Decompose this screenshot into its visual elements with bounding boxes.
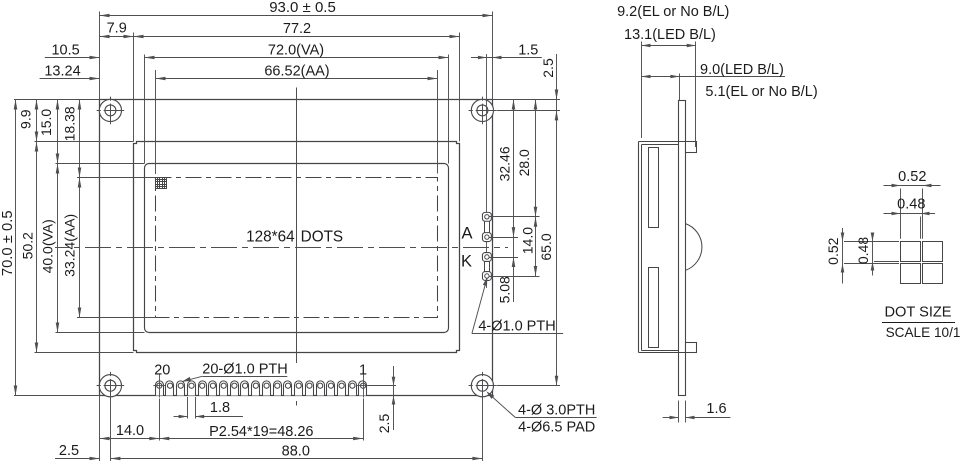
dimension chain 28.0 / 14.0 bbox=[516, 100, 537, 277]
svg-text:18.38: 18.38 bbox=[61, 106, 77, 141]
dimension 1.5 pin column offset bbox=[471, 42, 542, 59]
label DOT SIZE bbox=[882, 304, 955, 322]
dot detail extension lines (left) bbox=[844, 242, 899, 264]
dimension 18.38 AA top offset bbox=[61, 100, 81, 178]
dimension 33.24(AA) height bbox=[62, 178, 82, 318]
leader pin A lower bbox=[489, 237, 518, 239]
side view: LCD glass edge lower bbox=[649, 268, 659, 348]
svg-text:0.48: 0.48 bbox=[897, 197, 925, 213]
side view: bottom mounting tab bbox=[686, 343, 697, 353]
mounting hole top-right (Ø3.0 PTH / Ø6.5 PAD) bbox=[469, 97, 497, 125]
dimension chain 2.5 / 65.0 bbox=[538, 54, 558, 386]
svg-text:88.0: 88.0 bbox=[282, 444, 310, 460]
leader bezel bottom (left) bbox=[35, 352, 134, 354]
side view: top mounting tab bbox=[686, 142, 697, 153]
dimension 9.9 bezel top offset bbox=[18, 100, 39, 142]
dimension 0.52 dot pitch (left) bbox=[825, 228, 844, 284]
leader from bottom-right hole center bbox=[497, 385, 561, 387]
svg-text:0.48: 0.48 bbox=[855, 237, 871, 264]
pin 20 crosshair bbox=[153, 375, 165, 398]
svg-text:40.0(VA): 40.0(VA) bbox=[39, 219, 55, 273]
svg-text:77.2: 77.2 bbox=[283, 21, 311, 37]
dimension chain 32.46 / 5.08 bbox=[497, 100, 516, 304]
leader 4-Ø3.0 PTH / 4-Ø6.5 PAD to mounting hole bbox=[486, 391, 596, 435]
leader from top-right hole center bbox=[497, 110, 561, 112]
dimension 70.0 +/- 0.5 overall height bbox=[0, 100, 17, 396]
display glass outline (72.0 x 40.0 VA) bbox=[145, 164, 449, 333]
dot detail extension lines (top) bbox=[901, 189, 923, 239]
metal bezel frame (77.2 x 50.2) with stepped corners bbox=[134, 142, 460, 353]
label pin 1 bbox=[359, 363, 367, 379]
side view: LCD glass edge upper bbox=[649, 148, 659, 228]
label 128*64 DOTS bbox=[246, 229, 343, 246]
dimension 1.8 pad width bbox=[174, 400, 243, 418]
backlight pads A (anode pins) bbox=[482, 212, 491, 241]
dimension 88.0 hole spacing bbox=[110, 444, 482, 461]
label K bbox=[461, 253, 472, 271]
dimension 14.0 pin20 offset bbox=[100, 423, 160, 440]
extension line bezel left edge bbox=[133, 33, 135, 142]
vertical centerline of display bbox=[296, 88, 298, 406]
svg-text:7.9: 7.9 bbox=[107, 21, 127, 37]
dimension 13.24 (outside arrows) bbox=[40, 64, 100, 81]
leader VA top (left) bbox=[56, 163, 145, 165]
side view: bezel bottom flange bbox=[639, 351, 686, 353]
backlight pads K (cathode pins) bbox=[482, 253, 491, 281]
side view: PCB edge bbox=[679, 101, 686, 396]
dimension 2.5 pin row offset bbox=[376, 366, 395, 433]
svg-text:93.0 ± 0.5: 93.0 ± 0.5 bbox=[269, 0, 336, 16]
svg-text:20-Ø1.0 PTH: 20-Ø1.0 PTH bbox=[202, 362, 287, 378]
dimension 0.48 dot height (left) bbox=[855, 233, 874, 276]
leader AA bottom (left) bbox=[77, 317, 156, 319]
dimension 72.0(VA) bbox=[145, 42, 449, 59]
extension line left hole center (down) bbox=[110, 400, 112, 462]
svg-text:1.8: 1.8 bbox=[210, 400, 230, 416]
leader pin A upper bbox=[489, 216, 539, 218]
extension line PCB top-left corner bbox=[99, 12, 101, 100]
leader pin 1 row (right) bbox=[368, 385, 396, 387]
side view extension line bezel front bbox=[641, 42, 643, 139]
svg-text:K: K bbox=[461, 253, 472, 271]
extension line PCB bottom edge (left) bbox=[14, 395, 100, 397]
pin 1 crosshair bbox=[357, 375, 369, 398]
svg-text:0.52: 0.52 bbox=[898, 169, 926, 185]
svg-text:1: 1 bbox=[359, 363, 367, 379]
svg-text:2.5: 2.5 bbox=[59, 443, 79, 459]
connector pins 1-20 (20-Ø1.0 PTH pads) bbox=[156, 381, 367, 396]
svg-text:15.0: 15.0 bbox=[38, 109, 54, 136]
dot size detail: 2x2 dot squares bbox=[901, 242, 943, 284]
svg-text:5.1(EL or No B/L): 5.1(EL or No B/L) bbox=[705, 84, 817, 100]
dimension 15.0 VA top offset bbox=[38, 100, 59, 164]
dimension P2.54*19=48.26 bbox=[159, 424, 363, 440]
svg-text:72.0(VA): 72.0(VA) bbox=[268, 42, 324, 58]
extension line AA left bbox=[155, 70, 157, 174]
dimension 0.52 dot pitch (top) bbox=[884, 169, 941, 187]
side view extension line PCB front bbox=[679, 74, 681, 101]
svg-text:9.2(EL or No B/L): 9.2(EL or No B/L) bbox=[617, 4, 729, 20]
mounting hole bottom-right (Ø3.0 PTH / Ø6.5 PAD) bbox=[469, 372, 497, 400]
extension of PCB top edge to the right bbox=[493, 99, 561, 101]
dimension 7.9 bezel offset bbox=[100, 21, 134, 39]
dimension 50.2 bezel height bbox=[20, 142, 39, 353]
extension line VA left bbox=[144, 55, 146, 164]
svg-text:32.46: 32.46 bbox=[497, 146, 513, 181]
svg-text:33.24(AA): 33.24(AA) bbox=[62, 214, 78, 277]
dimension 77.2 bezel width bbox=[134, 21, 460, 38]
leader VA bottom (left) bbox=[56, 332, 145, 334]
svg-text:10.5: 10.5 bbox=[51, 42, 79, 58]
leader 4-Ø1.0 PTH to backlight pad bbox=[472, 277, 563, 335]
svg-text:14.0: 14.0 bbox=[519, 227, 535, 254]
leader 20-Ø1.0 PTH to pin 18 bbox=[182, 362, 288, 382]
label A bbox=[461, 224, 472, 242]
extension lines PCB thickness bbox=[679, 401, 686, 423]
svg-text:2.5: 2.5 bbox=[540, 58, 556, 78]
svg-text:4-Ø1.0 PTH: 4-Ø1.0 PTH bbox=[478, 319, 555, 335]
svg-text:128*64: 128*64 bbox=[246, 229, 295, 246]
active area AA dash-dot border (66.52 x 33.24) bbox=[156, 178, 438, 318]
svg-text:13.24: 13.24 bbox=[44, 64, 80, 80]
dimension 40.0(VA) height bbox=[39, 164, 59, 333]
svg-text:DOT SIZE: DOT SIZE bbox=[885, 304, 952, 320]
svg-text:4-Ø6.5 PAD: 4-Ø6.5 PAD bbox=[518, 419, 595, 435]
front view: PCB outline bbox=[100, 100, 493, 396]
svg-text:A: A bbox=[461, 224, 472, 242]
mounting hole bottom-left (Ø3.0 PTH / Ø6.5 PAD) bbox=[97, 372, 125, 400]
svg-text:1.5: 1.5 bbox=[518, 42, 538, 58]
svg-text:P2.54*19=48.26: P2.54*19=48.26 bbox=[209, 424, 313, 440]
svg-text:65.0: 65.0 bbox=[538, 233, 554, 260]
leader bezel top (left) bbox=[35, 141, 134, 143]
dimension 13.1 / 9.2 module depth bbox=[617, 4, 729, 47]
side view extension line backlight back bbox=[695, 42, 697, 148]
svg-text:9.9: 9.9 bbox=[18, 109, 34, 129]
svg-text:1.6: 1.6 bbox=[706, 401, 726, 417]
dimension 0.48 dot width (top) bbox=[884, 197, 936, 216]
horizontal centerline of display bbox=[55, 247, 508, 249]
svg-text:66.52(AA): 66.52(AA) bbox=[264, 64, 329, 80]
extension line PCB left edge (down) bbox=[99, 396, 101, 462]
svg-text:20: 20 bbox=[154, 363, 170, 379]
side view: bezel top flange bbox=[639, 142, 686, 145]
mounting hole top-left (Ø3.0 PTH / Ø6.5 PAD) bbox=[97, 97, 125, 125]
dimension 2.5 hole offset (outside arrows) bbox=[55, 443, 100, 460]
svg-text:SCALE 10/1: SCALE 10/1 bbox=[886, 325, 960, 340]
dimension 93.0 +/- 0.5 overall width bbox=[100, 0, 493, 17]
extension line AA right bbox=[437, 70, 439, 174]
svg-text:0.52: 0.52 bbox=[825, 237, 841, 264]
extension line pin 1 (down) bbox=[363, 399, 365, 441]
svg-text:13.1(LED B/L): 13.1(LED B/L) bbox=[624, 27, 716, 43]
extension line pin 20 (down) bbox=[159, 399, 161, 441]
dimension 1.6 PCB thickness bbox=[663, 401, 731, 419]
svg-text:4-Ø 3.0PTH: 4-Ø 3.0PTH bbox=[518, 403, 595, 419]
extension line PCB top edge (left) bbox=[14, 99, 100, 101]
extension line bezel right edge bbox=[459, 33, 461, 142]
label SCALE 10/1 bbox=[886, 325, 960, 340]
svg-text:70.0 ± 0.5: 70.0 ± 0.5 bbox=[0, 210, 16, 276]
backlight pin column centerline bbox=[486, 54, 488, 288]
svg-text:14.0: 14.0 bbox=[116, 423, 144, 439]
dimension 10.5 (outside arrows) bbox=[45, 42, 100, 59]
svg-text:50.2: 50.2 bbox=[20, 232, 36, 259]
svg-text:28.0: 28.0 bbox=[516, 149, 532, 176]
svg-text:9.0(LED B/L): 9.0(LED B/L) bbox=[700, 62, 784, 78]
svg-text:DOTS: DOTS bbox=[301, 229, 344, 246]
side view: bezel front face bbox=[639, 142, 642, 353]
leader pin K lower bbox=[489, 276, 539, 278]
first dot hatch square at AA corner bbox=[156, 178, 167, 189]
side view: solder bump arc bbox=[686, 224, 702, 271]
svg-text:5.08: 5.08 bbox=[497, 276, 513, 303]
dimension 9.0 / 5.1 depth to PCB bbox=[642, 62, 818, 100]
leader AA top (left) bbox=[77, 177, 156, 179]
extension line VA right bbox=[448, 55, 450, 164]
extension lines pad width (1.8) bbox=[188, 397, 196, 419]
svg-text:2.5: 2.5 bbox=[376, 414, 392, 434]
leader pin K upper bbox=[489, 257, 518, 259]
extension line PCB top-right corner bbox=[492, 12, 494, 100]
dimension 66.52(AA) bbox=[156, 64, 438, 81]
extension line right hole center (down) bbox=[482, 400, 484, 462]
label pin 20 bbox=[154, 363, 170, 379]
